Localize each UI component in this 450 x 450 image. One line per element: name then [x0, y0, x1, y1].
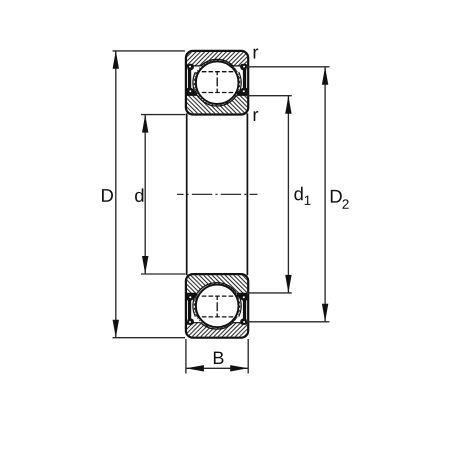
outer raceway arc bottom — [201, 323, 233, 329]
d dimension line — [135, 115, 148, 274]
outer ring section hatch top — [187, 52, 247, 106]
B extension line left — [185, 339, 187, 374]
right shield top — [237, 64, 247, 96]
d extension line top — [141, 114, 185, 116]
bore silhouette line right — [246, 113, 248, 275]
d1 extension line bottom — [247, 292, 292, 294]
top bearing section — [113, 51, 330, 115]
ring shoulder lines bottom — [187, 293, 247, 322]
outer ring / inner ring block outline bottom — [186, 274, 248, 338]
D2 extension line top — [247, 66, 330, 68]
B dimension — [186, 339, 248, 374]
shield hidden edge dashed lines top — [202, 72, 237, 93]
D extension line bottom — [113, 337, 186, 339]
outer raceway arc top — [201, 59, 233, 65]
cage arc left bottom — [193, 295, 196, 317]
B extension line right — [247, 339, 249, 374]
D extension line top — [113, 50, 186, 52]
axis centerline — [177, 193, 258, 195]
ball bottom — [196, 285, 239, 328]
bore silhouette line left — [186, 113, 188, 275]
inner raceway arc top — [197, 95, 236, 106]
left shield bottom — [187, 293, 197, 325]
right shield bottom — [237, 293, 247, 325]
inner ring section hatch top — [187, 59, 247, 113]
B dimension line — [186, 367, 248, 369]
cage arc right bottom — [239, 295, 242, 317]
r label bottom — [254, 111, 259, 121]
inner raceway arc bottom — [197, 283, 236, 294]
inner ring section hatch bottom — [187, 275, 247, 329]
d1 extension line top — [247, 95, 292, 97]
bottom bearing section (mirror) — [113, 274, 330, 338]
D2 extension line bottom — [247, 321, 330, 323]
outer ring / inner ring block outline top — [186, 51, 248, 115]
outer ring section hatch bottom — [187, 283, 247, 337]
D2 dimension line — [322, 67, 349, 322]
ball top — [196, 61, 239, 104]
ring shoulder lines top — [187, 66, 247, 95]
left shield top — [187, 64, 197, 96]
D dimension line — [102, 51, 119, 338]
d extension line bottom — [141, 273, 185, 275]
cage arc right top — [239, 72, 242, 94]
cage arc left top — [193, 72, 196, 94]
r label top — [254, 49, 259, 59]
d1 dimension line — [285, 96, 310, 293]
shield hidden edge dashed lines bottom — [202, 296, 237, 317]
